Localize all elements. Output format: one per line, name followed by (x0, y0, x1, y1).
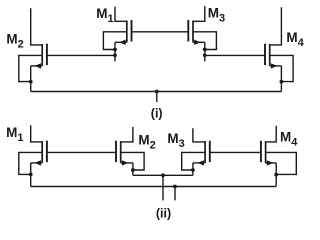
wire connector center stub (162, 175, 164, 200)
junction dot bus (ii) (173, 185, 177, 189)
wire M1-M2 (ii) gate line (47, 151, 116, 153)
junction dot M1 (ii) source-bulk (29, 173, 33, 177)
label (ii) (156, 207, 171, 221)
svg-text:(i): (i) (151, 107, 163, 121)
label M2 (6, 31, 23, 50)
wire M3-M4 (ii) gate line (210, 151, 261, 153)
wire M2 gate to node A (47, 54, 115, 56)
transistor M3 (188, 6, 205, 45)
wire M4 source down (280, 66, 282, 92)
wire M3 source down (204, 42, 206, 61)
transistor M4 (ii) (261, 126, 276, 166)
wire bus (i) center stub (156, 92, 158, 103)
label M4 (286, 30, 304, 49)
junction dot M4 source-bulk (280, 80, 284, 84)
wire M2 bulk wrap (19, 55, 42, 81)
label M4 (ii) (280, 129, 298, 148)
junction dot M4 (ii) source-bulk (274, 173, 278, 177)
junction dot bus (i) center (155, 90, 159, 94)
transistor M1 (ii) (31, 125, 47, 165)
junction dot connector center (161, 173, 165, 177)
wire M2 (ii) bulk wrap (121, 152, 144, 170)
wire M1 source down (114, 42, 116, 61)
wire M3 (ii) source down (192, 163, 194, 175)
junction dot node A upper (113, 48, 117, 52)
wire M2 source down (30, 66, 32, 92)
wire M4 (ii) source down (275, 163, 277, 187)
wire bottom bus (i) (31, 91, 282, 93)
wire bus (ii) stub (174, 187, 176, 201)
label M1 (96, 6, 113, 25)
junction dot M3 (ii) source-bulk (191, 168, 195, 172)
junction dot M2 (ii) source-bulk (131, 168, 135, 172)
transistor M4 (265, 7, 281, 68)
junction dot node B upper (203, 48, 207, 52)
wire M1 (ii) bulk wrap (19, 152, 42, 174)
junction dot node A lower (113, 53, 117, 57)
wire source connector (ii) (133, 174, 193, 176)
wire M3 bulk wrap (193, 32, 216, 50)
wire bottom bus (ii) (31, 186, 277, 188)
wire M4 (ii) bulk wrap (266, 152, 297, 174)
transistor M3 (ii) (193, 128, 210, 165)
junction dot node B lower (203, 53, 207, 57)
wire M1 bulk wrap (103, 32, 126, 50)
junction dot M2 source-bulk (29, 80, 33, 84)
wire M4 gate to node B (205, 54, 265, 56)
wire M3 (ii) bulk wrap (182, 152, 205, 170)
wire M1-M3 gate line (132, 31, 189, 33)
wire M4 bulk wrap (270, 55, 293, 81)
label M3 (208, 5, 225, 24)
label M1 (ii) (6, 125, 23, 144)
transistor M1 (115, 7, 132, 45)
label M3 (ii) (167, 131, 184, 150)
label M2 (ii) (138, 132, 155, 151)
label (i) (151, 107, 163, 121)
transistor M2 (ii) (116, 127, 133, 166)
wire M1 (ii) source down (30, 163, 32, 187)
wire M2 (ii) source down (132, 163, 134, 175)
svg-text:(ii): (ii) (156, 207, 171, 221)
transistor M2 (31, 8, 47, 68)
